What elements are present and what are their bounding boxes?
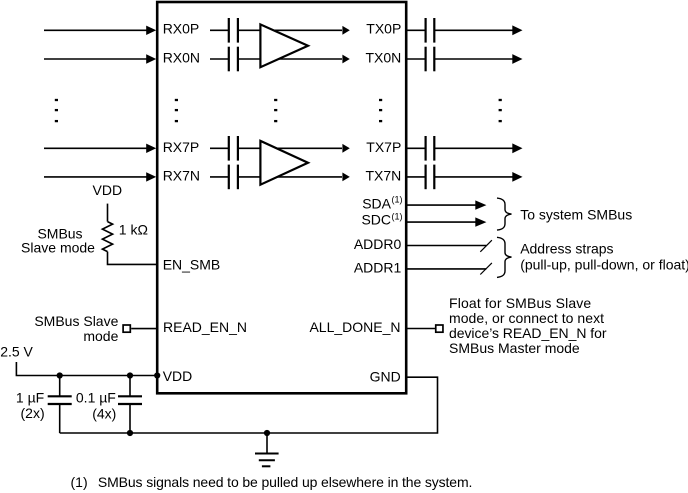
svg-text:ALL_DONE_N: ALL_DONE_N xyxy=(309,319,400,335)
wire SDC output arrow xyxy=(406,217,486,226)
wire RX0N to cap xyxy=(210,58,229,60)
capacitor C2 0.1uF plates xyxy=(118,396,142,404)
wire SDA output arrow xyxy=(406,200,486,209)
wire TX7N to cap xyxy=(406,176,426,178)
wire TX0P to cap xyxy=(406,29,426,31)
capacitor C-TX0N xyxy=(426,47,435,72)
ellipsis dots amp column xyxy=(274,99,277,122)
svg-text:(2x): (2x) xyxy=(21,405,45,421)
arrow to TX0P xyxy=(342,26,349,35)
arrow to TX7P xyxy=(342,144,349,153)
ellipsis dots RX column xyxy=(175,99,178,122)
wire TX7N output arrow xyxy=(434,172,522,182)
wire RX0P input arrow xyxy=(44,26,156,35)
svg-text:SMBus Slave: SMBus Slave xyxy=(34,313,118,329)
junction dot VDD rail at C2 xyxy=(127,372,133,378)
label SMBus Slave mode (resistor) xyxy=(21,225,95,255)
svg-text:device’s READ_EN_N for: device’s READ_EN_N for xyxy=(449,325,607,341)
ellipsis dots right of box xyxy=(499,99,502,122)
svg-text:(4x): (4x) xyxy=(92,405,116,421)
wire ADDR0 xyxy=(406,245,486,247)
junction dot VDD rail at C1 xyxy=(57,372,63,378)
svg-text:EN_SMB: EN_SMB xyxy=(163,256,221,272)
svg-text:RX7P: RX7P xyxy=(163,139,200,155)
capacitor C1 1uF stems xyxy=(59,376,61,434)
capacitor C-TX0P xyxy=(426,18,435,43)
wire RX0P to cap xyxy=(210,29,229,31)
junction dot VDD pin xyxy=(154,372,160,378)
svg-text:mode, or connect to next: mode, or connect to next xyxy=(449,310,604,326)
svg-text:SDA: SDA xyxy=(362,196,391,212)
wire TX7P output arrow xyxy=(434,143,522,153)
svg-text:Address straps: Address straps xyxy=(520,241,613,257)
junction dot bottom rail at C2 xyxy=(127,430,133,436)
IC body U1 xyxy=(157,2,406,393)
wire ADDR1 xyxy=(406,268,486,270)
terminal square READ_EN_N xyxy=(123,325,130,332)
capacitor C2 0.1uF stems xyxy=(129,376,131,434)
wire cap to TX0N arrow xyxy=(238,58,342,60)
ellipsis dots left of box xyxy=(55,99,58,122)
op-amp A0 xyxy=(260,24,308,67)
wire GND to bottom rail xyxy=(60,377,438,433)
wire cap to TX0P arrow xyxy=(238,29,342,31)
svg-text:TX0N: TX0N xyxy=(366,49,402,65)
capacitor C1 1uF plates xyxy=(48,396,72,404)
terminal square ALL_DONE_N xyxy=(436,325,443,332)
svg-text:TX7P: TX7P xyxy=(366,139,401,155)
svg-text:TX0P: TX0P xyxy=(366,21,401,37)
svg-text:ADDR1: ADDR1 xyxy=(354,260,402,276)
capacitor C-RX0N xyxy=(229,47,238,72)
svg-text:(1): (1) xyxy=(392,195,403,205)
arrow to TX0N xyxy=(342,55,349,64)
capacitor C-RX0P xyxy=(229,18,238,43)
svg-text:To system SMBus: To system SMBus xyxy=(520,206,632,222)
wire cap to TX7P arrow xyxy=(238,147,342,149)
svg-text:SMBus signals need to be pulle: SMBus signals need to be pulled up elsew… xyxy=(98,474,473,490)
wire RX7P to cap xyxy=(210,147,229,149)
svg-text:Float for SMBus Slave: Float for SMBus Slave xyxy=(449,295,591,311)
wire TX0P output arrow xyxy=(434,25,522,35)
svg-text:(1): (1) xyxy=(71,474,88,490)
wire VDD to resistor xyxy=(107,204,109,222)
junction dot bottom rail at ground xyxy=(264,430,270,436)
svg-text:TX7N: TX7N xyxy=(366,167,402,183)
wire TX0N output arrow xyxy=(434,54,522,64)
svg-text:(pull-up, pull-down, or float): (pull-up, pull-down, or float) xyxy=(520,257,688,273)
svg-text:READ_EN_N: READ_EN_N xyxy=(163,319,247,335)
svg-text:(1): (1) xyxy=(392,212,403,222)
wire RX0N input arrow xyxy=(44,54,156,63)
capacitor C-RX7N xyxy=(229,165,238,190)
svg-text:mode: mode xyxy=(83,328,118,344)
ellipsis dots TX column xyxy=(379,99,382,122)
brace to system SMBus xyxy=(497,198,512,230)
op-amp A7 xyxy=(260,141,308,185)
svg-text:RX7N: RX7N xyxy=(163,167,200,183)
svg-text:2.5 V: 2.5 V xyxy=(0,344,33,360)
wire RX7P input arrow xyxy=(44,144,156,153)
svg-text:Slave mode: Slave mode xyxy=(21,240,95,256)
svg-text:SDC: SDC xyxy=(361,211,391,227)
capacitor C-TX7N xyxy=(426,165,435,190)
capacitor C-RX7P xyxy=(229,136,238,161)
arrow to TX7N xyxy=(342,173,349,182)
svg-text:1 kΩ: 1 kΩ xyxy=(119,221,148,237)
label Float for SMBus Slave mode xyxy=(449,295,607,356)
wire TX0N to cap xyxy=(406,58,426,60)
wire RX7N to cap xyxy=(210,176,229,178)
svg-text:SMBus Master mode: SMBus Master mode xyxy=(449,340,580,356)
wire square to READ_EN_N xyxy=(131,328,157,330)
wire RX7N input arrow xyxy=(44,172,156,181)
wire cap to TX7N arrow xyxy=(238,176,342,178)
svg-text:VDD: VDD xyxy=(163,368,193,384)
svg-text:RX0N: RX0N xyxy=(163,49,200,65)
svg-text:ADDR0: ADDR0 xyxy=(354,236,402,252)
brace address straps xyxy=(497,237,512,277)
label SMBus Slave mode (READ_EN_N) xyxy=(34,313,118,344)
svg-text:RX0P: RX0P xyxy=(163,21,200,37)
svg-text:0.1 µF: 0.1 µF xyxy=(76,390,116,406)
wire resistor to EN_SMB xyxy=(108,252,158,265)
ground symbol xyxy=(255,433,279,466)
slash ADDR1 xyxy=(480,263,492,275)
resistor R1 1 kOhm xyxy=(102,222,112,252)
wire ALL_DONE_N to square xyxy=(406,328,436,330)
wire 2.5V supply xyxy=(16,362,157,376)
svg-text:GND: GND xyxy=(370,369,401,385)
svg-text:VDD: VDD xyxy=(93,182,123,198)
svg-text:1 µF: 1 µF xyxy=(16,390,44,406)
capacitor C-TX7P xyxy=(426,136,435,161)
wire TX7P to cap xyxy=(406,147,426,149)
slash ADDR0 xyxy=(480,240,492,252)
